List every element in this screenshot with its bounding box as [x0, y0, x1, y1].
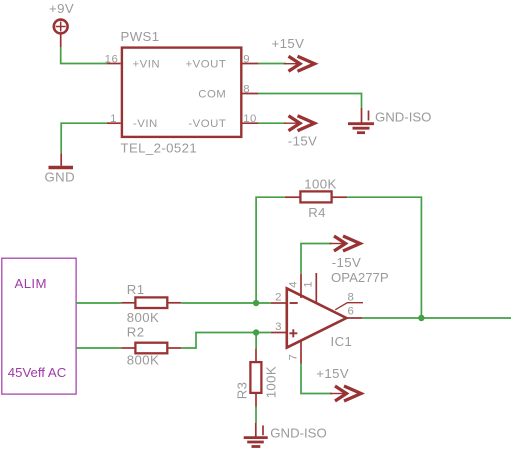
- svg-text:7: 7: [288, 354, 300, 361]
- pin 8 COM: [198, 83, 258, 100]
- wire output to right edge: [362, 317, 511, 319]
- svg-text:+15V: +15V: [272, 36, 305, 51]
- wire R1 to op-amp pin 2 node: [181, 302, 270, 304]
- wire R3 to GND-ISO: [255, 407, 257, 424]
- supply +9V: [49, 1, 74, 47]
- svg-text:R1: R1: [127, 282, 145, 297]
- svg-text:OPA277P: OPA277P: [331, 270, 389, 285]
- wire ALIM to R1: [76, 302, 121, 304]
- supply -15V (op-amp): [330, 236, 362, 270]
- supply +15V (op-amp): [316, 366, 361, 401]
- wire pin 1 to GND: [61, 123, 107, 153]
- svg-text:2: 2: [275, 291, 282, 303]
- junction node OUT: [418, 315, 424, 321]
- pin 2: [271, 291, 286, 303]
- wire pin3 node to R3: [255, 333, 257, 350]
- svg-text:800K: 800K: [127, 310, 159, 325]
- wire pin 10 to -15V supply: [259, 122, 286, 124]
- pin 16 +VIN: [105, 53, 161, 70]
- svg-text:GND-ISO: GND-ISO: [375, 110, 431, 125]
- svg-text:16: 16: [105, 53, 119, 65]
- pin 10 -VOUT: [188, 113, 258, 130]
- svg-text:-15V: -15V: [332, 255, 361, 270]
- op-amp plus input mark: [289, 329, 297, 337]
- svg-text:1: 1: [303, 281, 315, 288]
- svg-text:8: 8: [243, 83, 250, 95]
- svg-text:6: 6: [348, 306, 355, 318]
- resistor R3: [234, 349, 278, 407]
- pin 7: [288, 340, 302, 364]
- svg-text:GND-ISO: GND-ISO: [270, 426, 326, 441]
- svg-text:+VIN: +VIN: [133, 58, 161, 70]
- svg-text:-VIN: -VIN: [133, 118, 158, 130]
- wire feedback node to R4 left: [256, 197, 285, 303]
- resistor R1: [121, 282, 181, 325]
- svg-text:GND: GND: [45, 170, 76, 185]
- svg-text:-15V: -15V: [288, 133, 317, 148]
- svg-text:R2: R2: [127, 324, 145, 339]
- svg-text:ALIM: ALIM: [15, 276, 47, 291]
- svg-text:1: 1: [110, 113, 117, 125]
- wire R4 right to output node: [347, 197, 421, 318]
- op-amp minus input mark: [290, 302, 298, 304]
- svg-text:+15V: +15V: [316, 366, 349, 381]
- ground GND: [45, 153, 76, 184]
- svg-text:COM: COM: [198, 88, 226, 100]
- wire pin 9 to +15V supply: [259, 63, 286, 65]
- svg-text:100K: 100K: [264, 366, 279, 398]
- svg-text:-VOUT: -VOUT: [188, 118, 226, 130]
- svg-text:4: 4: [287, 281, 299, 288]
- svg-text:PWS1: PWS1: [121, 29, 160, 44]
- wire pin 7 to +15V supply: [301, 364, 332, 394]
- svg-text:8: 8: [348, 292, 355, 304]
- wire pin 4 to -15V supply: [301, 244, 332, 274]
- svg-text:9: 9: [243, 53, 250, 65]
- junction node IN-: [253, 300, 259, 306]
- junction node IN+: [253, 329, 259, 335]
- resistor R2: [121, 324, 181, 367]
- supply -15V (top): [284, 116, 317, 149]
- pin 4: [287, 274, 301, 298]
- ground GND-ISO (top): [348, 108, 431, 133]
- pin 8: [335, 292, 363, 310]
- wire ALIM to R2: [76, 347, 121, 349]
- svg-text:IC1: IC1: [331, 334, 353, 349]
- wire +9V to PWS1 pin 16: [61, 47, 107, 64]
- pin 9 +VOUT: [186, 53, 259, 70]
- svg-text:45Veff AC: 45Veff AC: [8, 365, 67, 380]
- supply +15V (top): [272, 36, 315, 71]
- svg-text:800K: 800K: [127, 352, 159, 367]
- wire pin 8 to GND-ISO: [259, 94, 362, 109]
- svg-text:3: 3: [275, 321, 282, 333]
- wire R2 to op-amp pin 3 node: [181, 333, 270, 349]
- resistor R4: [285, 176, 347, 219]
- pin 1 (IC1): [303, 273, 317, 303]
- svg-text:10: 10: [243, 113, 257, 125]
- svg-text:TEL_2-0521: TEL_2-0521: [121, 140, 198, 155]
- pin 1 -VIN: [107, 113, 158, 130]
- IC PWS1 box: [122, 48, 241, 137]
- ground GND-ISO (bottom): [244, 423, 327, 447]
- svg-text:R3: R3: [234, 382, 249, 400]
- svg-text:+VOUT: +VOUT: [186, 58, 227, 70]
- svg-text:100K: 100K: [304, 176, 336, 191]
- svg-text:R4: R4: [308, 205, 326, 220]
- op-amp IC1: [287, 270, 389, 349]
- svg-text:+9V: +9V: [49, 1, 74, 16]
- pin 3: [271, 321, 286, 333]
- box ALIM (45Veff AC): [2, 258, 76, 394]
- pin 6 output stub: [346, 306, 362, 318]
